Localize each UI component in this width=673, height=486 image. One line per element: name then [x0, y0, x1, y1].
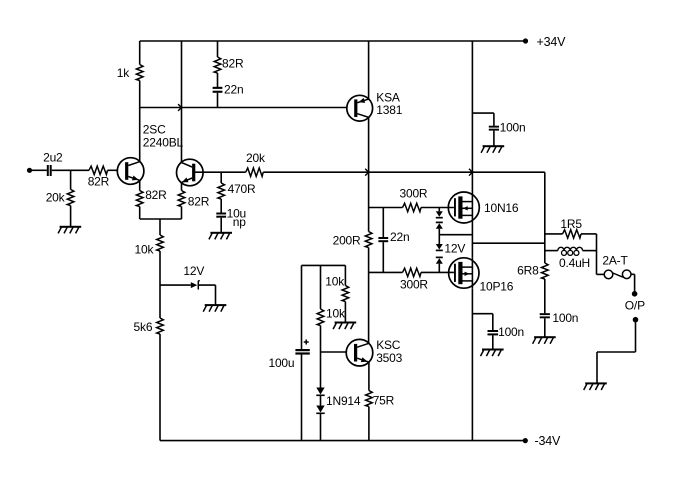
svg-text:5k6: 5k6 [134, 320, 153, 334]
svg-text:12V: 12V [444, 242, 465, 256]
svg-text:82R: 82R [222, 56, 244, 70]
svg-text:10P16: 10P16 [480, 280, 514, 294]
svg-text:82R: 82R [188, 195, 210, 209]
svg-text:2A-T: 2A-T [602, 253, 628, 267]
svg-text:0.4uH: 0.4uH [559, 256, 590, 270]
svg-text:20k: 20k [46, 191, 66, 205]
svg-text:100n: 100n [552, 311, 578, 325]
svg-text:470R: 470R [228, 182, 256, 196]
svg-text:1381: 1381 [376, 103, 402, 117]
svg-text:1R5: 1R5 [560, 217, 582, 231]
svg-text:1k: 1k [117, 66, 130, 80]
svg-text:+34V: +34V [537, 35, 567, 49]
svg-text:10k: 10k [326, 307, 346, 321]
svg-text:100u: 100u [268, 356, 294, 370]
svg-text:-34V: -34V [535, 434, 561, 448]
svg-text:2u2: 2u2 [43, 150, 63, 164]
svg-text:82R: 82R [88, 174, 110, 188]
svg-text:np: np [233, 215, 246, 229]
svg-text:22n: 22n [224, 83, 243, 97]
svg-text:KSC: KSC [376, 338, 401, 352]
svg-text:300R: 300R [400, 278, 428, 292]
svg-text:200R: 200R [333, 233, 361, 247]
svg-text:2SC: 2SC [143, 122, 166, 136]
svg-text:10N16: 10N16 [484, 201, 519, 215]
svg-text:20k: 20k [246, 151, 266, 165]
svg-text:100n: 100n [498, 325, 524, 339]
svg-text:12V: 12V [183, 264, 204, 278]
svg-text:1N914: 1N914 [326, 394, 361, 408]
svg-text:6R8: 6R8 [517, 264, 539, 278]
svg-text:3503: 3503 [376, 351, 402, 365]
svg-text:O/P: O/P [625, 298, 645, 312]
svg-text:10k: 10k [135, 242, 155, 256]
svg-text:75R: 75R [373, 393, 395, 407]
svg-text:82R: 82R [145, 188, 167, 202]
svg-text:2240BL: 2240BL [143, 136, 184, 150]
svg-text:10k: 10k [325, 274, 345, 288]
svg-text:100n: 100n [500, 120, 526, 134]
svg-text:300R: 300R [400, 187, 428, 201]
svg-text:22n: 22n [390, 230, 409, 244]
